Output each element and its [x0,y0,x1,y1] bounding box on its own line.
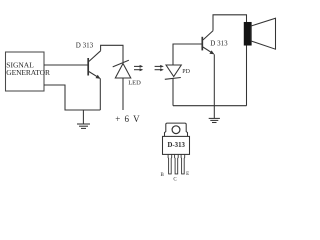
speaker driver (filled) [244,23,251,46]
svg-text:D-313: D-313 [168,142,186,149]
PD cathode bar (tilted) [165,78,181,80]
TO-220 mounting hole [172,126,180,134]
svg-text:PD: PD [182,69,190,75]
wire: LED anode to +6V [122,78,124,110]
TO-220 leg B [168,154,172,174]
svg-text:GENERATOR: GENERATOR [6,68,50,77]
light arrows (into PD) [155,65,164,71]
wire: speaker return rail [173,105,247,107]
svg-text:LED: LED [128,80,141,87]
transistor Q1 (D 313) [88,51,100,79]
ground (left) [77,110,90,128]
wire: Q1 collector up and over to LED [101,45,123,62]
svg-text:E: E [186,172,189,177]
transistor Q2 (D 313) [202,31,214,55]
LED cathode bar (tilted) [113,60,129,67]
svg-text:C: C [173,177,177,182]
LED triangle [115,64,131,79]
svg-text:+ 6 V: + 6 V [115,114,140,124]
TO-220 leg E [181,154,185,174]
wire: Q2 collector up and over to speaker [213,15,247,106]
TO-220 leg C [175,154,179,174]
TO-220 body [163,136,190,154]
wire: generator output to Q1 base [44,64,88,66]
wire: PD top to Q2 base [173,44,202,65]
wire: generator return to bottom rail [44,85,100,110]
light emission arrows (from LED) [134,65,143,71]
photodiode PD triangle [166,65,181,77]
svg-text:D 313: D 313 [210,39,228,47]
wire: Q2 emitter to ground [213,54,215,118]
speaker horn [251,18,275,49]
signal generator label [6,61,50,77]
ground (right) [209,118,220,122]
wire: Q1 emitter down to bottom rail [99,78,101,110]
svg-text:D 313: D 313 [76,41,94,49]
TO-220 tab [165,123,188,136]
svg-text:B: B [161,173,165,178]
signal generator box [6,52,45,91]
wire: PD bottom to return rail [172,79,174,106]
